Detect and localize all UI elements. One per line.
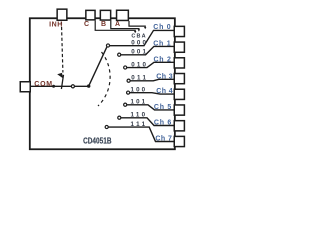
wire address C [95, 21, 135, 32]
contact circle 010 [124, 66, 127, 69]
wire address B [111, 21, 139, 31]
node inhibit pivot dot [52, 85, 55, 88]
terminal Ch2 [174, 58, 184, 68]
wire channel 4 [130, 93, 174, 94]
node wiper pivot dot [87, 84, 90, 87]
wire INH dashed control line [61, 22, 63, 73]
svg-text:INH: INH [49, 21, 62, 28]
wire COM lead [31, 85, 89, 87]
terminal Ch6 [174, 121, 184, 131]
wire inhibit blade slash [61, 75, 63, 89]
svg-text:Ch 1: Ch 1 [153, 41, 170, 48]
wire address A [129, 21, 145, 28]
svg-text:CD4051B: CD4051B [83, 137, 112, 146]
chip outline CD4051B body [30, 18, 175, 149]
arrowhead C [134, 31, 136, 33]
wire channel 2 [127, 62, 174, 67]
svg-text:C: C [84, 21, 89, 28]
svg-text:100: 100 [131, 86, 146, 93]
contact circle 110 [118, 116, 121, 119]
svg-text:COM: COM [34, 81, 52, 88]
contact break circle on COM wire [71, 85, 74, 88]
contact circle 101 [124, 103, 127, 106]
terminal COM [20, 82, 30, 92]
svg-text:Ch 3: Ch 3 [156, 73, 173, 80]
svg-text:Ch 5: Ch 5 [154, 104, 171, 111]
svg-text:Ch 6: Ch 6 [154, 120, 171, 127]
arrowhead B [138, 29, 140, 31]
wire channel 5 [127, 105, 174, 110]
arrowhead INH [57, 73, 63, 79]
arc wiper travel (dashed) [98, 52, 110, 106]
svg-text:111: 111 [131, 121, 146, 128]
contact circle 000 [106, 44, 109, 47]
wire channel 6 [121, 118, 174, 126]
terminal Ch5 [174, 105, 184, 115]
terminal B [100, 10, 110, 20]
terminal Ch0 [174, 26, 184, 36]
svg-text:A: A [115, 21, 120, 28]
arrowhead A [144, 27, 146, 29]
wire channel 3 [130, 79, 174, 81]
terminal INH [57, 9, 67, 20]
svg-text:Ch 2: Ch 2 [154, 56, 171, 63]
wire channel 7 [108, 127, 173, 141]
svg-text:Ch 0: Ch 0 [153, 24, 170, 31]
wire channel 0 [110, 30, 174, 45]
svg-text:CBA: CBA [131, 33, 145, 39]
svg-text:110: 110 [131, 112, 146, 119]
terminal Ch1 [174, 42, 184, 52]
svg-text:011: 011 [131, 75, 146, 82]
svg-text:010: 010 [131, 61, 146, 68]
contact circle 001 [118, 53, 121, 56]
svg-text:001: 001 [131, 49, 146, 56]
svg-text:B: B [101, 21, 106, 28]
contact circle 111 [105, 125, 108, 128]
terminal Ch4 [174, 89, 184, 99]
contact circle 011 [127, 79, 130, 82]
contact circle 100 [127, 91, 130, 94]
terminal Ch7 [174, 136, 184, 146]
svg-text:Ch 4: Ch 4 [156, 88, 173, 95]
svg-text:000: 000 [131, 40, 146, 47]
svg-text:101: 101 [131, 99, 146, 106]
terminal C [86, 10, 95, 20]
terminal A [117, 10, 129, 20]
wire channel 1 [121, 46, 174, 54]
terminal Ch3 [174, 74, 184, 84]
svg-text:Ch 7: Ch 7 [155, 136, 172, 143]
wire wiper arm to contact 000 [89, 47, 107, 86]
